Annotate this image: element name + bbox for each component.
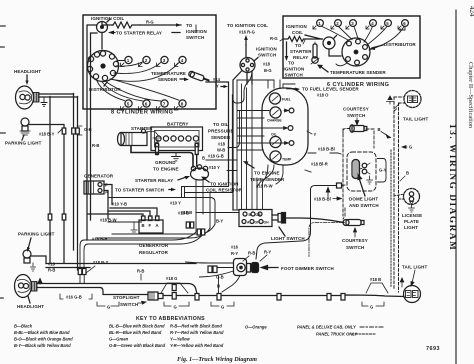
gauge FUEL [269,93,280,104]
svg-text:PLATE: PLATE [404,219,419,224]
leader light switch [279,227,285,236]
leader headlight lower [28,296,30,303]
wire knob to courtesy switch 2 [286,218,344,223]
long run C (tail feed) [46,264,196,268]
svg-text:R-Y—Red with Yellow Band: R-Y—Red with Yellow Band [170,330,224,335]
svg-text:STARTER: STARTER [290,49,312,54]
wire dimmer to bottom run [222,276,240,293]
svg-text:TEMPERATURE: TEMPERATURE [151,71,186,76]
svg-text:1: 1 [127,58,130,63]
svg-text:B-BL—Black with Blue Band: B-BL—Black with Blue Band [14,330,70,335]
svg-text:G: G [409,145,412,150]
wires into cluster left [237,111,286,151]
wire #10Y run [108,198,215,225]
G bracket 2 [164,302,189,306]
svg-text:FOOT DIMMER SWITCH: FOOT DIMMER SWITCH [281,266,334,271]
svg-text:#16: #16 [231,245,239,250]
svg-text:#18 Bl-R: #18 Bl-R [311,162,328,167]
svg-text:#16 R-G: #16 R-G [239,30,255,35]
svg-text:R-B: R-B [137,269,144,274]
svg-text:TO: TO [186,23,193,28]
gauge OIL [270,136,281,147]
svg-text:SWITCH: SWITCH [258,53,276,58]
spark plug 5 [125,100,132,107]
long run A (headlight feed) [37,284,197,294]
wire headlight drop [49,97,51,264]
plug wires (6cyl) [322,27,404,51]
wire plug6 riser [336,27,405,66]
svg-text:G: G [107,305,110,310]
svg-text:G: G [174,305,177,310]
svg-text:#18: #18 [218,142,226,147]
bottom long run to tail light [163,295,404,297]
headlight lower [15,275,32,298]
svg-text:AND SWITCH: AND SWITCH [349,203,379,208]
wire W-B corner [228,111,240,148]
svg-text:SWITCH: SWITCH [120,302,138,307]
svg-text:R-B: R-B [48,268,55,273]
svg-text:OIL: OIL [271,133,277,137]
wire courtesy1 left dash [343,129,350,134]
svg-text:LIGHT SWITCH: LIGHT SWITCH [271,236,305,241]
svg-text:G-B—Green with Black Band: G-B—Green with Black Band [109,343,166,348]
leader starter relay [178,177,186,180]
leader R-Y / R-B [243,255,267,261]
dome switch [362,163,367,168]
svg-text:COURTESY: COURTESY [342,238,368,243]
arrow foot dimmer [262,266,279,270]
tail light 1 [404,91,421,108]
svg-text:#16 G-B: #16 G-B [66,295,82,300]
gauge CHARGE [270,107,281,118]
wire box internal risers [195,25,197,33]
wire gen to regulator links [88,222,142,240]
tail light 2 [404,286,421,303]
wire courtesy trunk dashed [342,134,344,216]
spark plug 3 (6cyl) [350,20,357,27]
connector beads dimmer [208,266,212,273]
ground arrow tail 2 [400,278,404,287]
spark plug 3 [161,56,168,63]
svg-text:GENERATOR: GENERATOR [84,174,114,179]
svg-text:Y: Y [216,84,219,89]
arrow fuel level sender [295,88,300,92]
svg-text:REGULATOR: REGULATOR [139,250,169,255]
svg-text:IGNITION: IGNITION [284,67,305,72]
svg-text:RELAY: RELAY [293,55,308,60]
arrow up to resistor line [303,40,305,44]
temperature sender unit [188,71,210,84]
leader distributor [104,82,107,86]
spark plug 6 [143,100,150,107]
wire cluster to dome [308,152,338,154]
wire courtesy 1 dashes [343,129,374,148]
svg-text:5: 5 [127,102,130,107]
wires cluster bottom drops [257,165,283,188]
svg-text:Fig. 1—Truck Wiring Diagram: Fig. 1—Truck Wiring Diagram [177,356,257,363]
svg-text:BL-B—Blue with Black Band: BL-B—Blue with Black Band [109,324,165,329]
ground (dome) [367,176,373,184]
mid vertical harness [237,80,263,210]
svg-text:TEMP: TEMP [282,158,292,162]
wire coil resistor risers [182,187,185,198]
courtesy switch 2 [346,220,361,226]
courtesy 2 wire left dash-dot [309,223,343,257]
page sidebar rule [455,10,457,364]
svg-text:LIGHT: LIGHT [404,225,418,230]
leader ignition switch [254,58,258,62]
battery cable to relay [131,146,193,167]
svg-text:#18: #18 [263,62,271,67]
svg-text:HEADLIGHT: HEADLIGHT [17,304,44,309]
leader tail 2 [411,270,415,286]
dome light dashed box [347,152,376,191]
svg-text:F: F [149,223,152,228]
svg-text:TO STARTER RELAY: TO STARTER RELAY [116,31,162,36]
connector bead dome feed [337,183,342,188]
svg-text:TO IGNITION COIL: TO IGNITION COIL [227,23,268,28]
arrow down ignition switch wire [286,42,288,57]
svg-text:#18 B: #18 B [181,210,192,215]
ground (starter) [147,132,160,143]
wire into 6cyl box [280,39,283,41]
wire regulator A up [88,208,157,216]
wire generator to regulator [104,185,112,219]
parking light upper [21,118,29,126]
leader courtesy 2 [353,228,356,237]
arrow to starter switch [169,189,172,191]
leader parking light [22,135,24,140]
svg-text:G: G [370,305,373,310]
svg-text:#10 Y-B: #10 Y-B [112,202,127,207]
ground (headlight upper) [41,98,47,106]
leader temp sender [320,66,328,72]
headlight upper [16,86,34,109]
plug wires 1-4 [110,61,179,82]
battery posts [156,143,159,155]
light switch terminals row1 [243,212,247,216]
arrow up to ignition coil [245,39,247,45]
wire headlight to bus [39,94,78,97]
ignition coil L2 [323,37,335,49]
svg-text:TAIL LIGHT: TAIL LIGHT [403,117,428,122]
svg-text:IGNITION COIL: IGNITION COIL [91,16,124,21]
svg-text:2: 2 [145,58,148,63]
G bracket 3 [211,302,234,306]
svg-text:3: 3 [163,58,166,63]
wires foot dimmer left [186,262,234,277]
svg-text:#18 B-Y: #18 B-Y [93,260,109,265]
svg-text:OF: OF [255,221,260,225]
svg-text:G—Green: G—Green [109,337,129,342]
ground arrow (headlight lower) [38,279,42,285]
foot dimmer switch [234,259,247,276]
svg-text:B: B [406,171,409,176]
svg-text:TEMPERATURE SENDER: TEMPERATURE SENDER [330,70,386,75]
wire to starter relay w/ arrow [113,32,115,34]
6-cylinder wiring box [283,16,420,78]
svg-text:8: 8 [181,102,184,107]
wire coil to distributor (6cyl) [329,49,341,56]
arrow #18 B-Y lower [86,266,95,273]
distributor D1 [88,51,119,82]
spark plug 6 (6cyl) [402,20,409,27]
svg-text:#18 B-W: #18 B-W [100,218,117,223]
connector beads bus mid [48,214,52,220]
svg-text:G-Y: G-Y [379,168,387,173]
leader arrow temperature sender [180,78,186,80]
spark plug 8 [179,100,186,107]
junction triangle tail [366,283,388,293]
svg-text:TO STARTER SWITCH: TO STARTER SWITCH [115,188,164,193]
8-cylinder wiring box [83,15,216,109]
leader courtesy 1 [355,118,359,125]
ignition switch [240,58,255,73]
wire cluster lower right [305,170,311,172]
dome lamp [352,160,360,179]
light switch box [239,210,272,227]
svg-text:SENDER: SENDER [158,77,178,82]
battery B1 [151,127,203,151]
resistor R (coil resistor) [113,22,140,28]
spark plug 4 [179,56,186,63]
svg-text:Y: Y [314,132,317,137]
svg-text:KEY TO ABBREVIATIONS: KEY TO ABBREVIATIONS [136,316,205,322]
wire battery B to relay [196,155,198,167]
svg-text:R-B: R-B [92,143,99,148]
generator regulator box [139,220,163,233]
svg-text:TO ENGINE: TO ENGINE [153,167,179,172]
leader B [381,132,391,139]
svg-text:424: 424 [468,6,474,17]
svg-text:TO IGNITION: TO IGNITION [210,182,239,187]
courtesy switch 1 [352,126,364,132]
spark plug 5 (6cyl) [385,20,392,27]
svg-text:PARKING LIGHT: PARKING LIGHT [18,232,55,237]
ground (tail trunk top) [387,96,394,104]
junction triangle [161,283,188,293]
G bracket 4 [362,302,384,306]
svg-text:Y-R—Yellow with Red Band: Y-R—Yellow with Red Band [170,343,224,348]
svg-text:B-Y: B-Y [216,219,223,224]
headlight connector (hatched) [34,93,40,103]
arrow up to dome feed wire [326,188,330,197]
ground tail 1 [395,104,400,111]
wire bead drops to run [80,275,84,284]
svg-text:SWITCH: SWITCH [346,245,364,250]
ignition coil L1 [97,22,108,33]
leader parking light lower [28,238,31,249]
svg-text:STOPLIGHT: STOPLIGHT [113,295,140,300]
svg-text:OR: OR [256,213,262,217]
svg-text:A: A [156,223,159,228]
wire coil down to distributor [101,33,103,50]
svg-text:BATTERY: BATTERY [167,122,188,127]
svg-text:GROUND: GROUND [155,160,176,165]
dash into license [394,194,405,199]
ground (battery) [172,153,181,161]
svg-text:7: 7 [163,102,166,107]
svg-text:IGNITION: IGNITION [286,24,307,29]
connector beads nest [78,269,82,275]
wire 8cyl box drops left [87,109,91,240]
wire from relay label to right edge [172,32,180,34]
wire light switch feed down right [256,186,337,260]
gauge TEMP [270,151,281,162]
wire oil sender stubs [206,160,237,171]
svg-text:SWITCH: SWITCH [285,73,303,78]
svg-text:6: 6 [145,102,148,107]
svg-text:SWITCH: SWITCH [347,113,365,118]
svg-text:#18 O: #18 O [317,93,329,98]
svg-text:R-Y: R-Y [231,251,238,256]
leader coil resistor [204,179,209,183]
svg-text:13. WIRING DIAGRAM: 13. WIRING DIAGRAM [448,124,458,251]
svg-text:#18 B-R: #18 B-R [92,237,108,242]
svg-text:B-Y—Black with Yellow Band: B-Y—Black with Yellow Band [14,343,71,348]
starter motor [121,133,147,146]
ground (regulator) [131,222,139,234]
wires cluster top feeds [237,80,295,88]
svg-text:#14: #14 [213,77,221,82]
dashed trunk right [394,97,399,292]
temperature sender (6cyl) [313,44,317,58]
svg-text:B: B [217,284,220,289]
svg-text:LICENSE: LICENSE [402,213,422,218]
leader stoplight [138,301,146,304]
svg-text:B—Black: B—Black [14,324,33,329]
svg-text:TO: TO [288,61,295,66]
svg-text:R-G: R-G [146,20,154,25]
spark plug 7 [161,100,168,107]
svg-text:TO OIL: TO OIL [213,122,229,127]
svg-text:OH: OH [264,221,270,225]
connector beads on bus [62,128,66,134]
wire parking light to bus [29,125,64,264]
svg-text:B-G: B-G [264,68,272,73]
wire B drop [218,276,220,293]
distributor D2 [342,38,370,66]
G bracket 1 [97,302,119,306]
light switch terminals row2 [242,220,246,224]
leader Y [307,131,312,134]
svg-text:PARKING LIGHT: PARKING LIGHT [5,141,42,146]
connector beads harness [186,222,189,228]
svg-text:SWITCH: SWITCH [186,35,204,40]
svg-text:R-Y: R-Y [264,250,271,255]
svg-text:BL-R—Blue with Red Band: BL-R—Blue with Red Band [109,330,162,335]
svg-text:#18 B: #18 B [370,277,381,282]
svg-text:#10 Y: #10 Y [209,165,220,170]
svg-text:CHARGE: CHARGE [267,119,282,123]
svg-text:TAIL LIGHT: TAIL LIGHT [402,265,427,270]
wire parking light lower to runs [31,256,46,264]
leader temp sender (cluster) [246,163,254,168]
svg-text:STARTER RELAY: STARTER RELAY [135,178,173,183]
svg-text:#18 G: #18 G [166,276,177,281]
svg-text:DISTRIBUTOR: DISTRIBUTOR [384,42,416,47]
leader R-B run [140,274,142,280]
svg-text:PANEL & DELUXE CAB, ONLY: PANEL & DELUXE CAB, ONLY [297,325,357,330]
dash into tail 1 [394,97,405,103]
wire to ignition switch w/ arrow [140,24,181,26]
svg-text:PRESSURE: PRESSURE [208,129,234,134]
svg-text:#10 Y: #10 Y [170,201,181,206]
svg-text:#18 B-Bl: #18 B-Bl [314,197,331,202]
leader coil [305,35,321,39]
license plate light [404,189,420,205]
svg-text:HEADLIGHT: HEADLIGHT [14,69,41,74]
leader headlight [26,75,28,81]
cluster terminal posts [289,108,294,113]
leader dome [358,175,365,197]
svg-text:#18 B-Y: #18 B-Y [39,132,55,137]
svg-text:4: 4 [181,58,184,63]
svg-text:#18 B-Bl: #18 B-Bl [318,147,335,152]
parking light lower [23,250,31,258]
svg-text:Chapter II—Specification: Chapter II—Specification [467,62,474,129]
svg-text:FUEL: FUEL [282,98,291,102]
svg-text:G: G [221,305,224,310]
wire coil to resistor [102,22,113,26]
spark plug 1 [125,56,132,63]
harness junction mid [196,180,210,232]
spark plug 2 [143,56,150,63]
svg-text:B: B [378,127,381,132]
svg-text:O—Orange: O—Orange [245,325,267,330]
svg-text:#18 G-B: #18 G-B [208,154,224,159]
svg-text:IGNITION: IGNITION [256,47,277,52]
instrument cluster [262,88,308,165]
wire ignition switch leads [233,45,252,210]
connector beads bottom run [172,285,176,291]
svg-text:R-B—Red with Black Band: R-B—Red with Black Band [170,324,222,329]
svg-text:TO: TO [295,43,302,48]
scan edge marks [0,26,5,298]
resistor R (6cyl) [283,37,323,42]
svg-text:B: B [142,223,145,228]
svg-text:TO FUEL LEVEL SENDER: TO FUEL LEVEL SENDER [302,87,359,92]
long run B [37,288,148,295]
wire courtesy 2 dash [343,208,345,219]
wire #18B run [196,212,239,214]
svg-text:COIL: COIL [292,30,303,35]
vertical bus wires left [74,94,78,271]
svg-text:Y—Yellow: Y—Yellow [170,337,190,342]
generator G1 [84,181,104,194]
svg-text:R-B: R-B [248,251,255,256]
starter relay [191,168,209,180]
svg-text:7693: 7693 [426,346,440,352]
spark plug 2 (6cyl) [335,20,342,27]
spark plug 1 (6cyl) [317,20,324,27]
svg-text:W-B: W-B [217,148,225,153]
svg-text:B-O—Black with Orange Band: B-O—Black with Orange Band [14,337,73,342]
wires inside box left edge [87,25,97,109]
svg-text:DOME LIGHT: DOME LIGHT [349,197,378,202]
plug wires 5-8 [97,79,179,101]
stoplight switch [148,292,158,300]
arrow #18 B-Y [58,129,62,133]
wires into light switch top [182,187,263,211]
leader distributor 2 [372,45,383,48]
svg-text:R-G: R-G [270,36,278,41]
headlight lower connector [32,282,38,292]
light switch shaft and knob [272,215,278,220]
wire temp sender to mid bus [206,82,233,192]
svg-text:COURTESY: COURTESY [343,107,369,112]
wire nest merge [80,224,215,269]
